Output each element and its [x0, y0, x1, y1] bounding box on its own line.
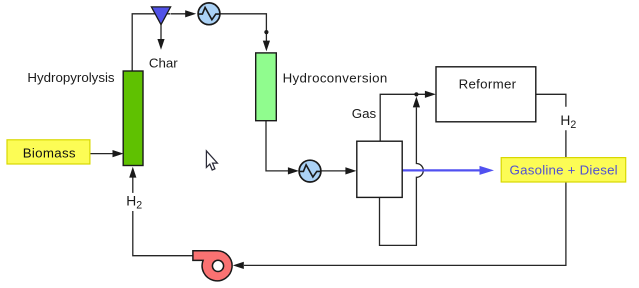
arrowhead up into gas junction: [413, 97, 420, 108]
wire: gas line separator top to reformer: [380, 94, 425, 141]
gasoline + diesel product box (covers right wire): [501, 158, 626, 182]
svg-text:Char: Char: [149, 55, 178, 70]
svg-text:Hydropyrolysis: Hydropyrolysis: [27, 70, 115, 85]
junction dot on wire above column2: [264, 30, 268, 34]
wire: biomass arrow shaft: [90, 153, 113, 155]
char separator triangle: [151, 7, 170, 25]
arrowhead up into column1 bottom: [129, 167, 136, 178]
junction node on gas line: [414, 92, 418, 96]
svg-text:Reformer: Reformer: [459, 76, 517, 91]
heat exchanger HX1: [198, 3, 220, 25]
wire: HX1 to corner, down to hydroconversion: [220, 14, 266, 42]
wire: triangle to HX1 arrow: [171, 13, 188, 15]
arrowhead char: [157, 39, 164, 50]
arrowhead into HX2: [288, 167, 299, 174]
wire: right vertical resumed to bottom, to pump: [244, 130, 566, 265]
reformer box: [436, 67, 536, 122]
heat exchanger HX2: [299, 160, 321, 182]
wire: reformer out, right side down (gap at H2 label): [536, 94, 566, 107]
reactor column Hydroconversion: [256, 53, 277, 121]
arrowhead into reformer: [425, 91, 436, 98]
blue product stream arrow: [402, 166, 494, 175]
separator vessel (gas/liquid): [357, 141, 402, 197]
wire: left vertical resumed up to column1: [132, 178, 134, 193]
pump / compressor: [193, 251, 232, 281]
wire: U-loop under separator with jump over blue line: [380, 108, 424, 246]
arrowhead into HX1: [185, 10, 196, 17]
mouse cursor: [206, 151, 217, 170]
wire: column1 top to top run: [132, 14, 170, 72]
svg-text:Hydroconversion: Hydroconversion: [283, 71, 388, 86]
arrowhead left into pump: [233, 262, 244, 269]
biomass feed box: [7, 140, 90, 164]
svg-text:Gas: Gas: [352, 106, 377, 121]
svg-text:Biomass: Biomass: [23, 145, 76, 160]
arrowhead down into column2: [263, 41, 270, 52]
svg-text:Gasoline + Diesel: Gasoline + Diesel: [510, 163, 618, 178]
reactor column Hydropyrolysis: [123, 71, 143, 166]
arrowhead into separator: [345, 167, 356, 174]
wire: HX2 to separator: [321, 170, 346, 172]
wire: char arrow shaft: [160, 25, 162, 41]
wire: column2 bottom to HX2: [266, 121, 289, 171]
wire: pump out to left vertical (gap at H2 label): [133, 211, 193, 256]
arrowhead into column1 from biomass: [113, 150, 124, 157]
